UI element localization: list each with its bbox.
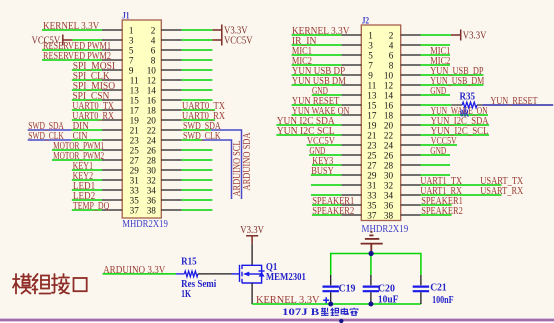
svg-text:19: 19 [130, 115, 140, 125]
wire J2 pin 1 left net KERNEL 3.3V [292, 34, 342, 36]
wire KEY1 to J1 pin 29 [72, 169, 102, 171]
wire SWD_CLK blue segment left of J1 [28, 139, 72, 141]
J1 pin 29 stub [102, 169, 122, 171]
J2 pin 7 stub [341, 64, 361, 66]
power port V3.3V right of J1 [212, 25, 221, 36]
svg-text:34: 34 [147, 185, 157, 195]
svg-text:V3.3V: V3.3V [240, 224, 264, 236]
wire V3.3V from J1 pin 2 [182, 29, 213, 31]
svg-text:CIN: CIN [73, 131, 88, 142]
svg-text:MHDR2X19: MHDR2X19 [122, 219, 168, 230]
wire J1 pin 12 right [182, 79, 213, 81]
resistor R35 right lead [477, 104, 482, 106]
J1 pin 31 stub [102, 179, 122, 181]
wire J2 pin 20 right net YUN_I2C_SDA [421, 124, 490, 126]
wire UART1_RX right of J2 [421, 194, 502, 196]
wire ARDUINO 3.3V to R15 [103, 273, 176, 275]
svg-text:9: 9 [368, 70, 373, 80]
J1 pin 18 stub [161, 109, 181, 111]
wire MOTOR_PWM1 to J1 pin 25 [52, 149, 102, 151]
wire DIN green segment to J1 pin 21 [72, 129, 103, 131]
J1 pin 35 stub [102, 199, 122, 201]
resistor R15 left lead [176, 273, 184, 275]
wire J1 pin 34 right [182, 189, 213, 191]
wire MOTOR_PWM2 to J1 pin 27 [52, 159, 102, 161]
wire J2 pin 8 right net MIC2 [421, 64, 451, 66]
svg-text:12: 12 [147, 75, 157, 85]
wire SWD_SDA blue segment left of J1 [28, 129, 72, 131]
J2 pin 3 stub [341, 44, 361, 46]
connector J1 body [122, 20, 161, 218]
wire LED1 to J1 pin 33 [72, 189, 102, 191]
svg-text:14: 14 [147, 85, 157, 95]
svg-text:R15: R15 [181, 256, 197, 267]
svg-text:32: 32 [384, 180, 394, 190]
wire J2 pin 12 right net YUN_USB_DM [421, 84, 484, 86]
svg-text:30: 30 [147, 165, 157, 175]
svg-text:26: 26 [384, 150, 394, 160]
J2 pin 21 stub [341, 134, 361, 136]
svg-text:USART_RX: USART_RX [480, 186, 524, 197]
wire V3.3V from J2 pin 2 [421, 34, 452, 36]
wire YUN_RESET [482, 104, 553, 106]
svg-text:SPEAKER2: SPEAKER2 [312, 206, 354, 217]
power port V3.3V right of J2 [451, 30, 461, 41]
svg-text:36: 36 [384, 200, 394, 210]
svg-text:6: 6 [151, 45, 156, 55]
wire J2 pin 4 right [421, 44, 451, 46]
wire J2 pin 19 left net YUN I2C SDA [276, 124, 341, 126]
J1 pin 6 stub [161, 49, 181, 51]
svg-text:10uF: 10uF [378, 295, 399, 306]
wire UART0_RX to J1 pin 19 [72, 119, 102, 121]
capacitor C19 plates [323, 287, 339, 292]
svg-text:C20: C20 [378, 284, 395, 295]
svg-text:38: 38 [384, 210, 394, 220]
svg-text:ARDUINO SCL: ARDUINO SCL [232, 141, 243, 197]
svg-text:29: 29 [130, 165, 140, 175]
svg-text:21: 21 [367, 130, 377, 140]
wire J1 pin 6 right [182, 49, 213, 51]
wire J2 pin 11 left net YUN USB DM [292, 84, 342, 86]
wire J2 pin 35 left net SPEAKER1 [312, 204, 341, 206]
capacitor C19 top lead [330, 275, 332, 285]
svg-text:37: 37 [130, 205, 140, 215]
svg-text:SWD_CLK: SWD_CLK [28, 131, 64, 142]
wire TEMP_DQ to J1 pin 37 [72, 209, 102, 211]
svg-text:20: 20 [147, 115, 157, 125]
wire J2 pin 26 right net GND [421, 154, 451, 156]
svg-text:GND: GND [430, 86, 446, 97]
svg-text:28: 28 [147, 155, 157, 165]
svg-text:J1: J1 [122, 10, 130, 20]
wire KERNEL 3.3V to J1 pin 1 [42, 29, 102, 31]
svg-text:16: 16 [147, 95, 157, 105]
svg-text:29: 29 [367, 170, 377, 180]
J2 pin 12 stub [401, 84, 421, 86]
svg-text:17: 17 [130, 105, 140, 115]
wire RESERVED PWM1 to J1 pin 5 [42, 49, 102, 51]
wire J1 pin 36 right [182, 199, 213, 201]
svg-text:25: 25 [130, 145, 140, 155]
J1 pin 16 stub [161, 99, 181, 101]
wire ground rail [331, 254, 421, 276]
svg-text:22: 22 [147, 125, 157, 135]
svg-text:14: 14 [384, 90, 394, 100]
svg-text:0R: 0R [460, 109, 470, 120]
svg-text:SWD_CLK: SWD_CLK [183, 131, 221, 142]
svg-text:35: 35 [367, 200, 377, 210]
svg-text:4: 4 [389, 40, 394, 50]
wire J2 pin 16 to R35 [421, 104, 452, 106]
svg-text:VCC5V: VCC5V [224, 34, 253, 46]
junction ground rail [369, 251, 374, 256]
svg-text:J2: J2 [362, 16, 370, 26]
wire J2 pin 3 left net IR_IN [292, 44, 342, 46]
J2 pin 10 stub [401, 74, 421, 76]
J1 pin 4 stub [161, 39, 181, 41]
J1 pin 13 stub [102, 89, 122, 91]
wire J2 pin 30 right [421, 174, 451, 176]
svg-text:MEM2301: MEM2301 [266, 272, 306, 283]
wire J2 pin 15 left net YUN RESET [292, 104, 342, 106]
svg-text:R35: R35 [460, 92, 476, 103]
svg-text:23: 23 [367, 140, 377, 150]
svg-text:2: 2 [389, 30, 394, 40]
wire SWD_CLK right green segment [182, 139, 202, 141]
svg-text:16: 16 [384, 100, 394, 110]
J1 pin 12 stub [161, 79, 181, 81]
wire J2 pin 38 right net SPEAKER2 [421, 214, 452, 216]
J1 pin 30 stub [161, 169, 181, 171]
wire RESERVED PWM2 to J1 pin 7 [42, 59, 102, 61]
J2 pin 32 stub [401, 184, 421, 186]
svg-text:5: 5 [368, 50, 373, 60]
svg-text:7: 7 [368, 60, 373, 70]
wire J2 pin 14 right net GND [421, 94, 451, 96]
svg-text:107J B: 107J B [282, 308, 320, 318]
J2 pin 2 stub [401, 34, 421, 36]
J2 pin 34 stub [401, 194, 421, 196]
J1 pin 21 stub [102, 129, 122, 131]
svg-text:11: 11 [130, 75, 139, 85]
connector J2 body [361, 25, 400, 221]
svg-text:13: 13 [367, 90, 377, 100]
polarity plus of C19 [323, 297, 329, 303]
J2 pin 17 stub [341, 114, 361, 116]
svg-text:3: 3 [129, 35, 134, 45]
svg-text:100nF: 100nF [432, 295, 454, 306]
wire J2 pin 9 left net YUN USB DP [292, 74, 342, 76]
svg-text:3: 3 [368, 40, 373, 50]
wire ARDUINO SCL blue segment [202, 140, 232, 199]
J2 pin 13 stub [341, 94, 361, 96]
J2 pin 5 stub [341, 54, 361, 56]
J2 pin 6 stub [401, 54, 421, 56]
capacitor C21 bottom lead [420, 292, 422, 304]
wire J2 pin 18 right net YUN_WAKE_ON [421, 114, 489, 116]
wire J2 pin 13 left net GND [312, 94, 342, 96]
svg-text:VCC5V: VCC5V [32, 34, 61, 46]
J1 pin 24 stub [161, 139, 181, 141]
svg-text:22: 22 [384, 130, 394, 140]
wire SWD_SDA right green segment [182, 129, 211, 131]
svg-text:SPEAKER2: SPEAKER2 [421, 206, 463, 217]
wire J1 pin 16 right [182, 99, 213, 101]
J2 pin 36 stub [401, 204, 421, 206]
resistor R15 zigzag [184, 271, 198, 277]
J2 pin 22 stub [401, 134, 421, 136]
svg-text:13: 13 [130, 85, 140, 95]
wire J1 pin 10 right [182, 69, 213, 71]
wire CIN green segment to J1 pin 23 [72, 139, 103, 141]
svg-text:18: 18 [384, 110, 394, 120]
J2 pin 4 stub [401, 44, 421, 46]
resistor R35 zigzag [462, 102, 477, 108]
capacitor C20 bottom lead [370, 292, 372, 304]
J1 pin 20 stub [161, 119, 181, 121]
svg-text:15: 15 [367, 100, 377, 110]
wire J2 pin 27 left net KEY3 [312, 164, 341, 166]
svg-text:35: 35 [130, 195, 140, 205]
svg-text:25: 25 [367, 150, 377, 160]
svg-text:30: 30 [384, 170, 394, 180]
svg-text:37: 37 [367, 210, 377, 220]
J2 pin 31 stub [341, 184, 361, 186]
svg-text:UART1_RX: UART1_RX [420, 186, 462, 197]
wire J1 pin 30 right [182, 169, 213, 171]
junction C20 bottom [368, 302, 373, 307]
wire J1 pin 28 right [182, 159, 213, 161]
J2 pin 8 stub [401, 64, 421, 66]
svg-text:24: 24 [147, 135, 157, 145]
J2 pin 30 stub [401, 174, 421, 176]
J2 pin 35 stub [341, 204, 361, 206]
sheet margin below border [0, 322, 554, 323]
wire SPI_MISO to J1 pin 13 [72, 89, 102, 91]
J2 pin 24 stub [401, 144, 421, 146]
svg-text:2: 2 [151, 25, 156, 35]
svg-text:5: 5 [129, 45, 134, 55]
J2 pin 1 stub [341, 34, 361, 36]
wire J1 pin 26 right [182, 149, 213, 151]
J1 pin 11 stub [102, 79, 122, 81]
svg-text:7: 7 [129, 55, 134, 65]
svg-text:KERNEL 3.3V: KERNEL 3.3V [43, 21, 100, 32]
J1 pin 14 stub [161, 89, 181, 91]
capacitor C21 top lead [420, 275, 422, 285]
svg-text:19: 19 [367, 120, 377, 130]
J1 pin 33 stub [102, 189, 122, 191]
svg-text:33: 33 [130, 185, 140, 195]
J2 pin 14 stub [401, 94, 421, 96]
J1 pin 27 stub [102, 159, 122, 161]
wire R15 to Q1 gate [198, 273, 232, 275]
J1 pin 23 stub [102, 139, 122, 141]
J1 pin 22 stub [161, 129, 181, 131]
svg-text:36: 36 [147, 195, 157, 205]
wire J1 pin 8 right [182, 59, 213, 61]
J2 pin 28 stub [401, 164, 421, 166]
wire J2 pin 37 left net SPEAKER2 [312, 214, 341, 216]
J2 pin 16 stub [401, 104, 421, 106]
J2 pin 25 stub [341, 154, 361, 156]
wire KEY2 to J1 pin 31 [72, 179, 102, 181]
svg-text:32: 32 [147, 175, 157, 185]
J1 pin 38 stub [161, 209, 181, 211]
transistor Q1 MEM2301 symbol [232, 265, 265, 284]
wire J2 pin 29 left net BUSY [311, 174, 341, 176]
svg-text:38: 38 [147, 205, 157, 215]
svg-text:11: 11 [367, 80, 376, 90]
junction C19 bottom [328, 302, 333, 307]
svg-text:1: 1 [129, 25, 134, 35]
svg-text:BUSY: BUSY [311, 166, 334, 177]
wire SPI_CSN to J1 pin 15 [72, 99, 102, 101]
svg-text:8: 8 [389, 60, 394, 70]
wire J2 pin 23 left net VCC5V [307, 144, 342, 146]
wire J2 pin 22 right net YUN_I2C_SCL [421, 134, 490, 136]
svg-text:ARDUINO 3.3V: ARDUINO 3.3V [103, 265, 166, 276]
svg-text:34: 34 [384, 190, 394, 200]
wire V3.3V to Q1 source [251, 244, 253, 265]
J1 pin 9 stub [102, 69, 122, 71]
capacitor C20 plates [363, 287, 379, 292]
J1 pin 8 stub [161, 59, 181, 61]
J2 pin 19 stub [341, 124, 361, 126]
power port V3.3V above Q1 [246, 236, 258, 244]
wire J2 pin 10 right net YUN_USB_DP [421, 74, 484, 76]
svg-text:KERNEL 3.3V: KERNEL 3.3V [256, 295, 320, 306]
wire SPI_CLK to J1 pin 11 [72, 79, 102, 81]
J1 pin 1 stub [102, 29, 122, 31]
J1 pin 26 stub [161, 149, 181, 151]
wire LED2 to J1 pin 35 [72, 199, 102, 201]
wire J2 pin 24 right net VCC5V [421, 144, 458, 146]
J2 pin 23 stub [341, 144, 361, 146]
J1 pin 15 stub [102, 99, 122, 101]
wire C20 top [370, 254, 372, 276]
wire J2 pin 6 right net MIC1 [421, 54, 451, 56]
power port VCC5V right of J1 [212, 35, 221, 46]
J1 pin 10 stub [161, 69, 181, 71]
wire J2 pin 33 left [311, 194, 341, 196]
svg-text:YUN_RESET: YUN_RESET [490, 96, 537, 107]
svg-text:12: 12 [384, 80, 394, 90]
wire J2 pin 21 left net YUN I2C SCL [276, 134, 341, 136]
svg-text:10: 10 [384, 70, 394, 80]
J1 pin 32 stub [161, 179, 181, 181]
svg-text:27: 27 [367, 160, 377, 170]
svg-text:31: 31 [367, 180, 377, 190]
svg-text:24: 24 [384, 140, 394, 150]
svg-text:10: 10 [147, 65, 157, 75]
J2 pin 27 stub [341, 164, 361, 166]
svg-text:33: 33 [367, 190, 377, 200]
J2 pin 20 stub [401, 124, 421, 126]
svg-text:4: 4 [151, 35, 156, 45]
svg-text:15: 15 [130, 95, 140, 105]
svg-text:21: 21 [130, 125, 140, 135]
J1 pin 17 stub [102, 109, 122, 111]
J2 pin 26 stub [401, 154, 421, 156]
wire J1 pin 38 right [182, 209, 213, 211]
J1 pin 3 stub [102, 39, 122, 41]
svg-text:C21: C21 [430, 283, 447, 294]
wire J1 pin 32 right [182, 179, 213, 181]
wire UART0_RX right of J1 [182, 119, 215, 121]
wire J1 pin 14 right [182, 89, 213, 91]
J1 pin 34 stub [161, 189, 181, 191]
J1 pin 37 stub [102, 209, 122, 211]
svg-text:20: 20 [384, 120, 394, 130]
wire J2 pin 25 left net GND [309, 154, 341, 156]
wire UART0_TX to J1 pin 17 [72, 109, 102, 111]
J2 pin 15 stub [341, 104, 361, 106]
svg-text:28: 28 [384, 160, 394, 170]
svg-text:TEMP_DQ: TEMP_DQ [73, 201, 110, 212]
J2 pin 11 stub [341, 84, 361, 86]
J1 pin 2 stub [161, 29, 181, 31]
J2 pin 38 stub [401, 214, 421, 216]
svg-text:27: 27 [130, 155, 140, 165]
svg-text:V3.3V: V3.3V [463, 29, 487, 41]
svg-text:17: 17 [367, 110, 377, 120]
svg-text:23: 23 [130, 135, 140, 145]
J2 pin 37 stub [341, 214, 361, 216]
J2 pin 33 stub [341, 194, 361, 196]
svg-text:ARDUINO SDA: ARDUINO SDA [242, 132, 253, 191]
capacitor C21 plates [413, 287, 429, 292]
J1 pin 19 stub [102, 119, 122, 121]
svg-text:MHDR2X19: MHDR2X19 [362, 224, 409, 235]
power port VCC5V left of J1 [63, 35, 73, 46]
wire J2 pin 7 left net MIC2 [292, 64, 342, 66]
J2 pin 29 stub [341, 174, 361, 176]
svg-text:1K: 1K [181, 289, 191, 300]
svg-text:C19: C19 [339, 284, 356, 295]
wire UART0_TX right of J1 [182, 109, 215, 111]
capacitor C19 bottom lead [330, 292, 332, 304]
svg-text:18: 18 [147, 105, 157, 115]
wire ARDUINO SDA blue segment [211, 130, 242, 199]
J1 pin 28 stub [161, 159, 181, 161]
J1 pin 36 stub [161, 199, 181, 201]
svg-text:31: 31 [130, 175, 140, 185]
junction dot on sheet border [339, 319, 343, 323]
svg-text:8: 8 [151, 55, 156, 65]
J1 pin 25 stub [102, 149, 122, 151]
wire Q1 drain down [251, 283, 253, 304]
J1 pin 7 stub [102, 59, 122, 61]
wire J2 pin 17 left net YUN WAKE ON [292, 114, 342, 116]
resistor R35 left lead [451, 104, 462, 106]
wire SPI_MOSI to J1 pin 9 [72, 69, 102, 71]
wire J2 pin 31 left [311, 184, 341, 186]
wire UART1_TX right of J2 [421, 184, 502, 186]
capacitor C20 top lead [370, 275, 372, 285]
svg-text:9: 9 [129, 65, 134, 75]
J2 pin 9 stub [341, 74, 361, 76]
title text 模组接口 (module interface) [13, 274, 87, 294]
svg-text:GND: GND [430, 146, 446, 157]
J2 pin 18 stub [401, 114, 421, 116]
svg-text:6: 6 [389, 50, 394, 60]
wire J2 pin 36 right net SPEAKER1 [421, 204, 452, 206]
wire KERNEL 3.3V rail [252, 303, 421, 305]
ground symbol [361, 232, 383, 254]
svg-text:1: 1 [368, 30, 373, 40]
